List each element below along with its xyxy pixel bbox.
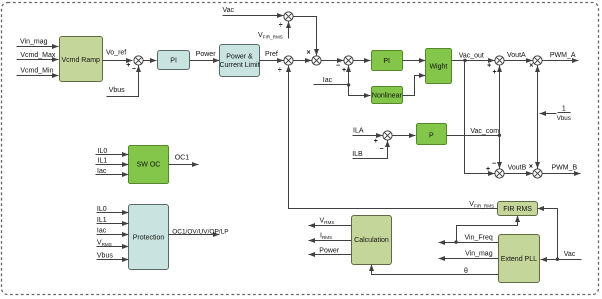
wire Iac into Protection xyxy=(97,228,129,235)
svg-text:Vbus: Vbus xyxy=(97,253,113,260)
svg-text:θ: θ xyxy=(464,268,468,275)
wire Vac_out xyxy=(452,52,495,60)
svg-text:−: − xyxy=(132,66,136,73)
wire OC1 output xyxy=(169,155,199,165)
multiplier junction PWM_B xyxy=(533,169,542,178)
wire theta to Calculation xyxy=(372,265,499,275)
svg-text:−: − xyxy=(492,160,496,167)
wire Nonlinear to Wight xyxy=(403,76,426,96)
svg-text:IL1: IL1 xyxy=(98,158,108,165)
svg-text:+: + xyxy=(486,166,490,173)
wire IL1 into Protection xyxy=(97,217,129,224)
svg-text:Calculation: Calculation xyxy=(354,237,389,244)
wire Vin_Freq output xyxy=(439,234,499,242)
wire Vcmd_Max input xyxy=(17,52,59,59)
svg-text:Vac: Vac xyxy=(564,251,576,258)
svg-text:VoutB: VoutB xyxy=(508,165,527,172)
node Vin_Freq branch xyxy=(454,240,457,243)
svg-text:OC1: OC1 xyxy=(175,155,190,162)
wire VFIR_RMS stub into top junction xyxy=(258,22,289,40)
node Vac branch xyxy=(556,258,559,261)
svg-text:Vac_com: Vac_com xyxy=(470,128,499,135)
node Vac_out branch xyxy=(463,59,466,62)
svg-text:Nonlinear: Nonlinear xyxy=(372,93,403,100)
svg-text:Power: Power xyxy=(319,248,340,255)
multiplier junction (instantaneous reference) xyxy=(312,56,321,65)
node Vac_com branch xyxy=(498,134,501,137)
wire PWM_A output xyxy=(543,52,579,60)
label fraction 1/Vbus xyxy=(557,106,571,122)
wire summing junction to PI current xyxy=(353,60,371,62)
svg-text:ILA: ILA xyxy=(353,128,364,135)
wire Pref junction to multiplier junction xyxy=(293,60,312,62)
svg-text:−: − xyxy=(379,146,383,153)
wire Vac top input xyxy=(223,7,284,15)
svg-text:Wight: Wight xyxy=(429,64,447,71)
wire VRMS into Protection xyxy=(97,240,129,248)
wire Iac input xyxy=(314,77,349,85)
wire top junction to multiplier xyxy=(294,17,317,56)
svg-text:Vin_Freq: Vin_Freq xyxy=(465,234,493,241)
svg-text:÷: ÷ xyxy=(278,67,282,74)
multiplier junction PWM_A xyxy=(533,56,542,65)
svg-text:Vin_mag: Vin_mag xyxy=(465,251,493,258)
wire Vac bottom input xyxy=(541,251,582,260)
block PI (voltage loop) xyxy=(158,51,190,70)
divider junction Pref by VFIR_RMS xyxy=(284,56,293,65)
svg-text:+: + xyxy=(493,69,497,76)
wire VoutB xyxy=(505,165,533,174)
wire multiplier to current summing junction xyxy=(322,60,344,62)
wire junction to P xyxy=(393,135,416,137)
svg-text:VRMS: VRMS xyxy=(97,240,112,248)
wire VoutA xyxy=(505,52,533,61)
svg-text:Extend PLL: Extend PLL xyxy=(501,256,537,263)
svg-text:1: 1 xyxy=(562,106,566,113)
block FIR RMS xyxy=(498,202,538,216)
svg-text:+: + xyxy=(126,62,130,69)
summing junction VoutB xyxy=(495,169,504,178)
block Power & Current Limit xyxy=(219,45,259,77)
svg-text:Vcmd_Min: Vcmd_Min xyxy=(20,67,53,74)
node Iac branch xyxy=(347,83,350,86)
wire Pref xyxy=(260,51,284,61)
svg-text:Vin_mag: Vin_mag xyxy=(20,38,48,45)
wire Vin_Freq branch into FIR RMS bottom xyxy=(457,216,518,243)
svg-text:+: + xyxy=(342,67,346,74)
svg-text:Iac: Iac xyxy=(97,228,107,235)
wire Iac to Nonlinear xyxy=(349,85,371,96)
svg-text:VoutA: VoutA xyxy=(507,52,526,59)
wire Vbus into Protection xyxy=(97,253,129,260)
svg-text:Vbus: Vbus xyxy=(109,87,125,94)
summing junction current loop xyxy=(344,56,353,65)
svg-text:IL1: IL1 xyxy=(97,217,107,224)
multiplier junction Vac divide VFIR_RMS xyxy=(284,12,293,21)
wire VRMS output of Calculation xyxy=(309,218,352,226)
svg-text:FIR RMS: FIR RMS xyxy=(503,206,532,213)
wire Vcmd_Min input xyxy=(17,67,59,75)
block Extend PLL xyxy=(499,235,540,283)
svg-text:Current Limit: Current Limit xyxy=(219,62,259,69)
svg-text:Iac: Iac xyxy=(97,168,107,175)
svg-text:P: P xyxy=(429,133,434,140)
summing junction ILA minus ILB xyxy=(383,131,392,140)
block P (balance gain) xyxy=(417,124,447,145)
block Calculation xyxy=(352,216,392,265)
summing junction Vo_ref minus Vbus xyxy=(134,56,143,65)
svg-text:OC1/OV/UV/OP/LP: OC1/OV/UV/OP/LP xyxy=(172,228,228,235)
block Wight xyxy=(426,49,452,84)
svg-text:VFIR_RMS: VFIR_RMS xyxy=(258,32,283,40)
svg-text:×: × xyxy=(307,50,311,57)
wire Vac_com up to VoutA xyxy=(499,66,501,136)
svg-text:Protection: Protection xyxy=(133,234,165,241)
block Protection xyxy=(129,205,169,270)
svg-text:VRMS: VRMS xyxy=(320,218,335,226)
svg-text:Vac_out: Vac_out xyxy=(459,52,484,59)
wire Vac_com down to VoutB xyxy=(499,136,501,169)
wire Protection output OC1/OV/UV/OP/LP xyxy=(169,228,229,235)
wire junction to PI xyxy=(143,60,157,62)
svg-text:PWM_B: PWM_B xyxy=(552,165,578,172)
svg-text:Pref: Pref xyxy=(265,51,278,58)
wire Power xyxy=(190,51,220,61)
wire Vac_out down to VoutB summing xyxy=(465,61,495,174)
wire IL0 into SW OC xyxy=(96,148,129,155)
wire Vac_com xyxy=(447,128,500,136)
wire Iac up to summing junction xyxy=(348,66,350,85)
wire ILA input xyxy=(353,128,383,136)
wire VFIR_RMS from FIR RMS to Pref divider xyxy=(289,66,498,209)
svg-text:×: × xyxy=(529,63,533,70)
svg-text:Iac: Iac xyxy=(323,77,333,84)
wire Vbus feedback xyxy=(107,66,139,97)
svg-text:÷: ÷ xyxy=(279,22,283,29)
wire PI current to Wight xyxy=(403,60,426,62)
wire Vo_ref xyxy=(103,50,133,61)
svg-text:×: × xyxy=(529,164,533,171)
svg-text:IL0: IL0 xyxy=(97,206,107,213)
summing junction VoutA xyxy=(495,56,504,65)
svg-text:SW OC: SW OC xyxy=(137,162,161,169)
svg-text:−: − xyxy=(336,63,340,70)
svg-text:+: + xyxy=(374,138,378,145)
block Nonlinear xyxy=(372,87,403,104)
svg-text:PI: PI xyxy=(383,58,390,65)
svg-text:Power: Power xyxy=(196,51,217,58)
wire IL0 into Protection xyxy=(97,206,129,213)
wire Power output of Calculation xyxy=(309,248,352,255)
wire IL1 into SW OC xyxy=(96,158,129,165)
svg-text:PI: PI xyxy=(170,58,177,65)
svg-text:+: + xyxy=(487,63,491,70)
wire one-over-Vbus stub xyxy=(540,113,557,115)
svg-text:ILB: ILB xyxy=(352,151,363,158)
svg-text:Vbus: Vbus xyxy=(557,115,571,122)
block SW OC xyxy=(129,146,169,184)
svg-text:IL0: IL0 xyxy=(98,148,108,155)
wire Iac into SW OC xyxy=(96,168,129,175)
block Vcmd Ramp xyxy=(60,37,103,82)
wire ILB input xyxy=(352,141,387,159)
wire one-over-Vbus up to PWM_A multiplier xyxy=(537,66,539,114)
wire PWM_B output xyxy=(543,165,581,174)
wire one-over-Vbus down to PWM_B multiplier xyxy=(537,114,539,169)
svg-text:Power &: Power & xyxy=(226,53,253,60)
svg-text:Vac: Vac xyxy=(223,7,235,14)
svg-text:PWM_A: PWM_A xyxy=(550,52,576,59)
wire Vin_mag output xyxy=(439,251,499,259)
svg-text:Vo_ref: Vo_ref xyxy=(106,50,126,57)
svg-text:Vcmd Ramp: Vcmd Ramp xyxy=(61,57,100,64)
svg-text:VFIR_RMS: VFIR_RMS xyxy=(469,201,494,209)
svg-text:Vcmd_Max: Vcmd_Max xyxy=(20,52,56,59)
block PI (current loop) xyxy=(372,51,403,71)
svg-text:IRMS: IRMS xyxy=(320,233,332,241)
wire IRMS output of Calculation xyxy=(309,233,352,241)
wire Vin_mag input xyxy=(17,38,59,46)
wire Vac into FIR RMS right input xyxy=(538,209,558,260)
